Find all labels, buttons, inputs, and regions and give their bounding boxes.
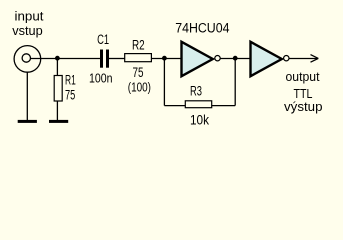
svg-text:R2: R2 (132, 38, 145, 53)
svg-text:R1: R1 (65, 73, 76, 88)
svg-text:input: input (15, 9, 44, 24)
svg-text:75: 75 (133, 65, 144, 80)
svg-text:74HCU04: 74HCU04 (175, 21, 230, 36)
svg-text:10k: 10k (190, 112, 209, 127)
svg-text:výstup: výstup (284, 99, 323, 114)
svg-text:75: 75 (65, 88, 75, 103)
svg-text:output: output (286, 69, 320, 84)
svg-text:100n: 100n (89, 71, 113, 86)
svg-text:C1: C1 (97, 32, 109, 47)
svg-text:R3: R3 (190, 83, 202, 98)
svg-text:(100): (100) (128, 79, 151, 94)
svg-text:vstup: vstup (12, 23, 43, 38)
